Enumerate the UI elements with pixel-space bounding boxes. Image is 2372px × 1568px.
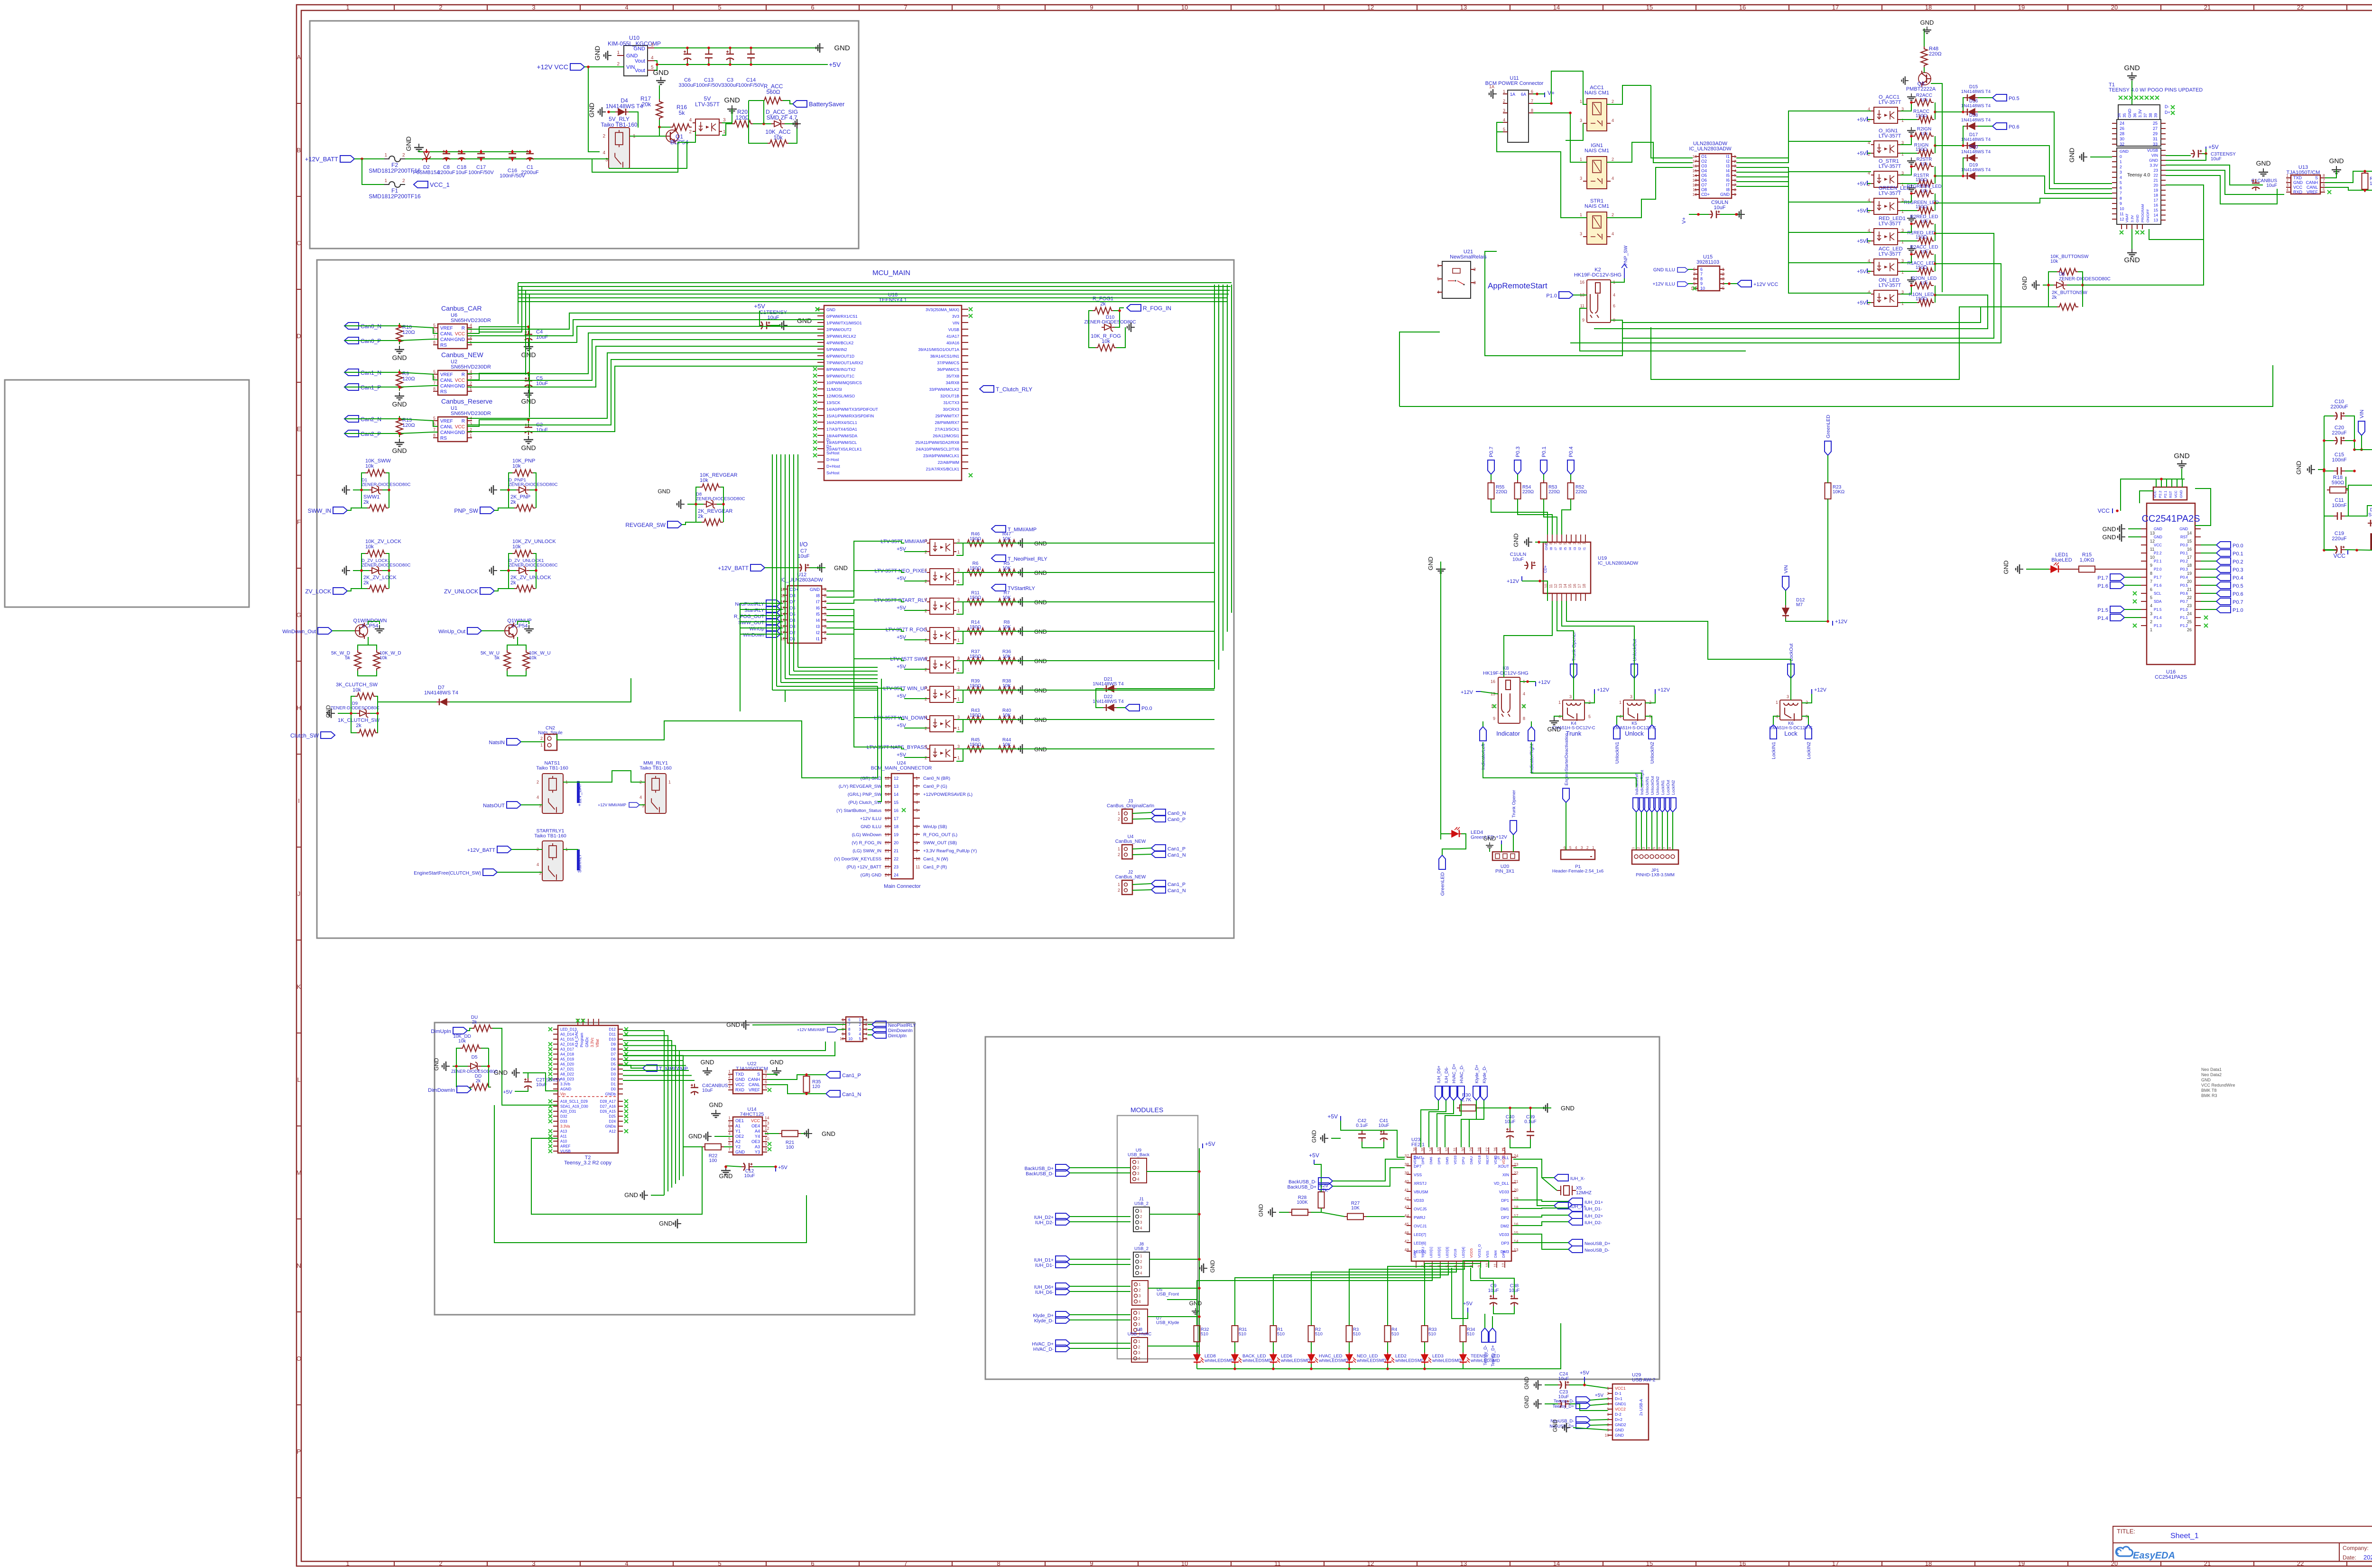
wire <box>1963 126 1964 146</box>
svg-text:6: 6 <box>842 1018 844 1022</box>
svg-text:5: 5 <box>824 612 826 617</box>
svg-text:Can1_P: Can1_P <box>1167 846 1186 852</box>
wire <box>1461 1100 1476 1147</box>
svg-text:TXD: TXD <box>735 1072 744 1077</box>
svg-text:P0.1: P0.1 <box>2233 551 2243 557</box>
wire <box>2140 491 2153 503</box>
svg-text:HVAC_D+: HVAC_D+ <box>1032 1342 1054 1347</box>
svg-text:7: 7 <box>433 334 435 339</box>
svg-text:1: 1 <box>728 1069 731 1074</box>
svg-text:J: J <box>297 890 301 897</box>
net flag Teensy_D+ <box>1576 1402 1590 1409</box>
wire <box>2324 440 2334 441</box>
svg-text:10uF: 10uF <box>536 334 548 340</box>
wire <box>1223 285 1223 651</box>
wire <box>740 609 780 610</box>
svg-text:I5: I5 <box>816 612 820 617</box>
net flag UnlockIN2 <box>1654 798 1660 812</box>
svg-text:1N4148WS T4: 1N4148WS T4 <box>1961 118 1991 123</box>
svg-text:3.3Va: 3.3Va <box>560 1125 570 1129</box>
x marks T2 left <box>548 1027 552 1031</box>
title block <box>2113 1526 2372 1561</box>
wire <box>1497 122 1587 218</box>
wire <box>1017 660 1025 661</box>
svg-text:SDA: SDA <box>2154 600 2162 604</box>
svg-text:O5: O5 <box>1701 173 1707 178</box>
svg-text:100: 100 <box>709 1158 717 1163</box>
svg-text:8: 8 <box>765 1069 767 1074</box>
wire <box>1531 721 1532 727</box>
svg-text:2k: 2k <box>363 580 369 586</box>
svg-text:O4: O4 <box>1701 168 1707 173</box>
svg-text:16: 16 <box>1739 1560 1746 1567</box>
wire <box>1441 834 1450 839</box>
ground <box>2259 168 2268 176</box>
wire <box>1736 141 1871 163</box>
wire <box>1935 224 1936 241</box>
svg-text:GND: GND <box>834 564 848 572</box>
svg-text:19: 19 <box>2018 1560 2025 1567</box>
svg-text:WinDown_Out: WinDown_Out <box>282 629 316 635</box>
wire <box>1491 499 1547 535</box>
net flag HVAC_D- <box>1056 1345 1070 1352</box>
wire <box>1504 601 1552 677</box>
svg-text:1: 1 <box>1137 1160 1140 1164</box>
svg-text:BlueLED: BlueLED <box>2051 557 2072 563</box>
net flag HVAC_D+ <box>1056 1340 1070 1347</box>
svg-text:P0.6: P0.6 <box>2233 591 2243 597</box>
svg-text:I2: I2 <box>1726 159 1730 164</box>
svg-text:CD+: CD+ <box>1701 192 1710 197</box>
wire <box>1481 692 1498 694</box>
svg-text:+5V: +5V <box>754 303 765 310</box>
wire <box>659 85 660 99</box>
net flag NeoUSB_D+ <box>1568 1239 1583 1246</box>
wire <box>353 570 369 571</box>
wire <box>1736 167 1871 172</box>
wire <box>904 581 927 581</box>
wire <box>467 353 824 418</box>
svg-text:3: 3 <box>1138 1322 1140 1327</box>
wire <box>467 420 528 426</box>
svg-text:10uF: 10uF <box>702 1088 713 1093</box>
svg-text:P0.3: P0.3 <box>1515 446 1521 457</box>
svg-text:LED[4]: LED[4] <box>1461 1247 1465 1258</box>
svg-text:4: 4 <box>2150 603 2152 608</box>
svg-text:1,0KΩ: 1,0KΩ <box>2080 557 2094 563</box>
x marks teensy right <box>969 307 973 311</box>
wire <box>1197 1268 1432 1325</box>
svg-text:8: 8 <box>848 1027 851 1032</box>
capacitor C18 10uF <box>458 150 465 161</box>
wire <box>1437 1100 1454 1147</box>
wire <box>1827 499 1828 621</box>
svg-text:33/PWM/MCLK2: 33/PWM/MCLK2 <box>929 387 960 392</box>
svg-text:120Ω: 120Ω <box>402 330 415 335</box>
wire <box>1622 233 1994 338</box>
wire <box>1492 1316 1493 1328</box>
EasyEDA logo <box>2116 1547 2175 1561</box>
svg-text:120Ω: 120Ω <box>402 423 415 428</box>
wire <box>1421 1100 1438 1147</box>
svg-text:30: 30 <box>2120 137 2124 141</box>
svg-text:10K: 10K <box>1002 595 1011 600</box>
svg-text:2200uF: 2200uF <box>521 170 539 175</box>
wire <box>726 1166 741 1167</box>
wire <box>2324 416 2337 550</box>
wire <box>1533 93 1545 94</box>
wire <box>1399 332 1440 406</box>
svg-text:100K: 100K <box>1297 1200 1308 1205</box>
resistor 10K_W_D 10k <box>373 650 380 671</box>
svg-text:100nF/50V: 100nF/50V <box>738 83 764 88</box>
wire <box>2149 185 2204 240</box>
wire <box>1513 1208 1568 1208</box>
wire <box>344 416 399 419</box>
svg-text:whiteLEDSMD: whiteLEDSMD <box>1318 1358 1348 1364</box>
wire <box>1543 474 1544 483</box>
wire <box>780 603 783 604</box>
svg-text:4: 4 <box>2286 187 2289 192</box>
wire <box>382 553 389 571</box>
wire <box>2201 593 2216 594</box>
svg-text:14/A0/PWM/TX3/SPDIFOUT: 14/A0/PWM/TX3/SPDIFOUT <box>826 407 878 412</box>
wire <box>529 294 530 417</box>
svg-text:R_FOG_IN: R_FOG_IN <box>1143 305 1171 312</box>
svg-text:5: 5 <box>2150 595 2152 600</box>
wire <box>1479 1107 1551 1108</box>
ground <box>1907 215 1916 221</box>
wire <box>623 1031 664 1195</box>
svg-text:IUH_D1-: IUH_D1- <box>1584 1207 1602 1212</box>
svg-text:ZENER-DIODESOD80C: ZENER-DIODESOD80C <box>361 482 411 488</box>
svg-text:D25: D25 <box>609 1115 616 1119</box>
svg-text:M7: M7 <box>1796 602 1803 608</box>
svg-text:1: 1 <box>824 636 826 641</box>
wire <box>1963 158 1964 176</box>
wire <box>2324 470 2334 471</box>
wire <box>868 1029 872 1030</box>
svg-text:RS: RS <box>440 389 447 395</box>
svg-text:GND: GND <box>521 444 536 452</box>
svg-text:Trunk Opener: Trunk Opener <box>1511 790 1517 818</box>
net flag DimUpIn <box>872 1032 886 1038</box>
svg-text:CanBus_NEW: CanBus_NEW <box>1115 875 1146 880</box>
svg-text:1: 1 <box>1582 542 1586 544</box>
modules section frame <box>985 1037 1659 1379</box>
net flag Teensy_D+ <box>1489 1328 1496 1342</box>
resistor R31 510 <box>1232 1326 1238 1342</box>
wire <box>592 158 609 159</box>
ground <box>395 439 404 446</box>
svg-text:GND: GND <box>826 307 835 312</box>
wire <box>1070 1291 1130 1292</box>
ground <box>711 1110 721 1117</box>
svg-text:IUH_D2+: IUH_D2+ <box>1034 1215 1054 1220</box>
svg-text:+5V: +5V <box>1463 1301 1473 1307</box>
svg-text:36: 36 <box>2132 113 2137 118</box>
svg-text:2: 2 <box>1868 301 1870 306</box>
svg-text:5: 5 <box>718 1560 721 1567</box>
svg-text:T_Clutch_RLY: T_Clutch_RLY <box>996 386 1032 393</box>
svg-text:LED[2]: LED[2] <box>1437 1247 1441 1258</box>
wire <box>654 61 657 70</box>
svg-text:10K: 10K <box>1002 625 1011 630</box>
svg-text:4: 4 <box>1138 1356 1140 1361</box>
svg-text:13: 13 <box>1558 584 1563 588</box>
svg-text:12: 12 <box>1367 1560 1374 1567</box>
wire <box>1900 224 1911 232</box>
net flag LockIN2 <box>1669 798 1676 812</box>
svg-text:Can1_N: Can1_N <box>1167 888 1186 894</box>
svg-text:P0.7: P0.7 <box>2233 600 2243 605</box>
svg-text:45: 45 <box>1405 1222 1409 1227</box>
svg-text:PNP_SW: PNP_SW <box>1623 245 1629 266</box>
wire <box>1387 1364 1388 1369</box>
svg-text:GND: GND <box>2124 256 2140 264</box>
svg-text:2: 2 <box>439 4 442 11</box>
svg-text:0.1uF: 0.1uF <box>1356 1123 1368 1128</box>
svg-text:5: 5 <box>433 323 435 328</box>
wire <box>1720 214 1742 215</box>
resistor R36 10K <box>996 657 1018 664</box>
svg-text:2: 2 <box>617 62 620 67</box>
wire <box>1935 254 1936 271</box>
svg-text:10K: 10K <box>1002 713 1011 718</box>
svg-text:GND: GND <box>1920 19 1934 26</box>
net flag IUH_X- <box>1554 1174 1568 1181</box>
svg-text:3: 3 <box>470 422 472 426</box>
svg-text:P2.1: P2.1 <box>2163 491 2168 498</box>
svg-text:VCC: VCC <box>455 424 465 430</box>
svg-text:2: 2 <box>689 129 692 135</box>
svg-text:5: 5 <box>1503 127 1505 132</box>
svg-text:7: 7 <box>1554 542 1558 544</box>
svg-text:8: 8 <box>1549 542 1553 544</box>
svg-text:DM1: DM1 <box>1501 1207 1509 1211</box>
svg-text:2: 2 <box>402 178 405 184</box>
svg-text:1: 1 <box>1139 1282 1141 1287</box>
svg-text:4: 4 <box>625 4 628 11</box>
svg-text:10KΩ: 10KΩ <box>1833 489 1845 495</box>
wire <box>1573 678 1574 700</box>
svg-text:7: 7 <box>2120 191 2122 195</box>
svg-text:HVAC_D-: HVAC_D- <box>1033 1347 1054 1352</box>
wire <box>1641 812 1642 850</box>
svg-text:5: 5 <box>1569 846 1572 850</box>
wire <box>904 728 927 729</box>
wire <box>780 615 783 616</box>
svg-text:whiteLEDSMD: whiteLEDSMD <box>1242 1358 1272 1364</box>
wire <box>1545 1403 1558 1404</box>
svg-text:10K: 10K <box>1002 742 1011 747</box>
svg-text:P6SMB15A: P6SMB15A <box>413 170 441 175</box>
svg-text:TVStartRLY: TVStartRLY <box>1008 586 1036 591</box>
wire <box>772 690 878 691</box>
connector U8 USB_HVAC <box>1131 1337 1148 1362</box>
wire <box>1311 1268 1456 1325</box>
svg-text:4: 4 <box>925 568 927 572</box>
svg-text:10uF: 10uF <box>1379 1123 1390 1128</box>
svg-text:22/A8/PWM: 22/A8/PWM <box>938 460 959 465</box>
svg-text:USB_Klyde: USB_Klyde <box>1156 1320 1179 1326</box>
wire <box>1607 85 1651 104</box>
wire <box>956 543 1214 555</box>
svg-text:GND: GND <box>494 1069 508 1076</box>
svg-text:47: 47 <box>1405 1239 1409 1244</box>
net flag ZV_UNLOCK <box>480 588 494 594</box>
wire <box>467 333 824 374</box>
svg-text:whiteLEDSMD: whiteLEDSMD <box>1204 1358 1234 1364</box>
svg-text:GND: GND <box>392 400 407 408</box>
svg-text:3: 3 <box>1580 176 1582 181</box>
wire <box>1463 1342 1464 1353</box>
svg-text:100nF/50V: 100nF/50V <box>468 170 494 175</box>
net flag BackUSB_D- <box>1056 1170 1070 1176</box>
resistor 5K_W_D 5k <box>354 650 361 671</box>
svg-text:7: 7 <box>916 832 918 837</box>
svg-text:+5V: +5V <box>1205 1141 1215 1147</box>
svg-text:P2.2: P2.2 <box>2158 491 2162 498</box>
wire <box>1900 254 1911 263</box>
svg-text:6: 6 <box>728 1142 731 1146</box>
wire <box>2026 569 2049 570</box>
ground <box>742 1020 750 1030</box>
ground <box>524 436 533 443</box>
svg-text:VCC: VCC <box>2293 185 2303 190</box>
junction dots <box>425 157 428 160</box>
svg-text:1: 1 <box>1592 846 1594 850</box>
svg-text:560Ω: 560Ω <box>767 89 780 95</box>
connector U5 USB_Front <box>1132 1281 1148 1305</box>
svg-text:10: 10 <box>848 1037 852 1041</box>
wire <box>1569 1404 1608 1411</box>
wire <box>956 631 965 632</box>
ground <box>2016 564 2023 574</box>
wire <box>785 690 786 702</box>
svg-text:10k: 10k <box>380 655 388 661</box>
net flag IUH_D1- <box>1568 1205 1583 1211</box>
wire <box>682 522 702 525</box>
wire <box>2166 175 2277 204</box>
svg-text:VCC: VCC <box>735 1082 745 1087</box>
svg-text:Can1_P: Can1_P <box>1167 882 1186 887</box>
svg-text:4: 4 <box>470 323 472 328</box>
svg-text:O: O <box>296 1355 301 1362</box>
wire <box>1485 251 1622 356</box>
svg-text:D10: D10 <box>609 1037 616 1042</box>
x marks <box>2119 96 2122 100</box>
svg-text:ZENER-DIODESOD80C: ZENER-DIODESOD80C <box>696 497 745 502</box>
svg-text:I1: I1 <box>816 636 820 642</box>
svg-text:L: L <box>297 1076 300 1083</box>
svg-text:2x USB-A: 2x USB-A <box>1639 1399 1643 1416</box>
svg-text:P0.0: P0.0 <box>1141 706 1152 711</box>
wire <box>563 849 578 850</box>
net flag Clutch_SW <box>321 732 335 738</box>
svg-text:O5: O5 <box>789 612 796 617</box>
svg-text:2: 2 <box>2150 619 2152 624</box>
wire <box>1867 153 1871 154</box>
svg-text:1: 1 <box>1503 89 1505 94</box>
svg-text:Y2: Y2 <box>735 1144 741 1149</box>
svg-text:I4: I4 <box>1726 168 1730 173</box>
svg-text:HVAC_D+: HVAC_D+ <box>1452 1064 1456 1083</box>
svg-text:GND: GND <box>724 96 740 104</box>
svg-text:I2: I2 <box>1577 547 1582 550</box>
svg-text:2: 2 <box>1138 1317 1140 1321</box>
svg-text:Sheet_1: Sheet_1 <box>2170 1532 2199 1540</box>
wire <box>2324 549 2334 550</box>
svg-text:4: 4 <box>925 685 927 690</box>
svg-text:3: 3 <box>1140 1220 1142 1225</box>
wire <box>623 1042 835 1056</box>
resistor R45 150 <box>965 746 986 752</box>
svg-text:10uF: 10uF <box>536 427 548 433</box>
svg-text:D-: D- <box>2165 104 2169 109</box>
wire <box>623 1070 689 1071</box>
svg-text:1A: 1A <box>1510 92 1515 97</box>
svg-text:GND: GND <box>454 337 465 342</box>
svg-text:21: 21 <box>2154 178 2159 183</box>
svg-text:16: 16 <box>2154 203 2159 208</box>
svg-text:9: 9 <box>916 849 918 853</box>
svg-text:S: S <box>757 1072 760 1077</box>
svg-text:D5: D5 <box>611 1062 616 1067</box>
wire <box>986 601 996 602</box>
svg-text:9: 9 <box>2150 563 2152 568</box>
svg-text:VCC2: VCC2 <box>1615 1407 1626 1411</box>
svg-text:10k: 10k <box>352 687 361 693</box>
svg-text:37: 37 <box>1405 1153 1409 1158</box>
wire <box>838 1029 846 1030</box>
wire <box>623 1036 668 1192</box>
svg-text:HVAC_D-: HVAC_D- <box>1459 1065 1464 1083</box>
wire <box>405 158 592 159</box>
resistor R38 10K <box>996 687 1018 693</box>
svg-text:GNDa: GNDa <box>605 1125 616 1129</box>
svg-text:GND: GND <box>1512 534 1520 547</box>
wire <box>2067 272 2083 285</box>
resistor R1 510 <box>1270 1326 1277 1342</box>
svg-text:6: 6 <box>2120 185 2122 190</box>
net flag Can0_P <box>344 337 359 344</box>
wire <box>489 1066 491 1087</box>
svg-text:34/RX8: 34/RX8 <box>946 380 960 385</box>
svg-text:10uF: 10uF <box>1714 205 1725 211</box>
svg-text:VCC: VCC <box>2098 507 2110 514</box>
svg-text:150Ω: 150Ω <box>1916 147 1927 152</box>
svg-text:1N4148WS T4: 1N4148WS T4 <box>606 103 643 110</box>
wire <box>1424 1364 1425 1369</box>
svg-text:USB_2: USB_2 <box>1134 1246 1149 1252</box>
svg-text:10: 10 <box>2120 206 2124 211</box>
svg-text:7: 7 <box>1734 183 1736 187</box>
junction dots <box>360 489 363 491</box>
svg-text:GND: GND <box>1552 1419 1558 1432</box>
wire <box>2083 240 2204 285</box>
svg-text:1: 1 <box>384 178 387 184</box>
svg-text:SWW_OUT (SB): SWW_OUT (SB) <box>923 840 957 846</box>
net flag Klyde_D- <box>1481 1086 1487 1100</box>
svg-text:5: 5 <box>2120 180 2122 185</box>
wire <box>1484 1314 1485 1328</box>
svg-text:+5V: +5V <box>1309 1152 1319 1159</box>
ground <box>805 1129 812 1138</box>
svg-text:VCC: VCC <box>751 1118 760 1123</box>
wire <box>878 679 881 802</box>
svg-text:Date:: Date: <box>2343 1554 2356 1561</box>
